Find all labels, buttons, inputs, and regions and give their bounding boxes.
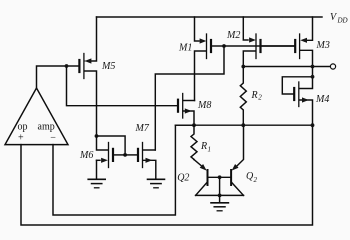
label M2 (226, 30, 240, 41)
transistor M4 (282, 67, 312, 126)
svg-text:M6: M6 (79, 150, 93, 161)
node junction M2 drain / R2 top (241, 65, 245, 69)
wire jog to M6/M7 gates (97, 136, 126, 155)
wire mid rail (175, 124, 312, 126)
node junction op-amp output (65, 64, 69, 68)
svg-text:−: − (50, 132, 56, 143)
node Vdd label (330, 12, 348, 25)
wire collector line (196, 194, 244, 196)
transistor M1 (195, 17, 225, 101)
label R2 (251, 90, 263, 102)
svg-text:M4: M4 (315, 94, 329, 105)
svg-text:M5: M5 (101, 61, 115, 72)
svg-text:M3: M3 (316, 40, 330, 51)
wire bases to emitter line (219, 177, 221, 195)
wire Q2/Q3 base line (209, 176, 231, 178)
label Q3 (246, 171, 258, 184)
svg-text:M1: M1 (178, 43, 192, 54)
label M4 (315, 94, 329, 105)
node junction R2 bottom (241, 123, 245, 127)
svg-text:M2: M2 (226, 30, 240, 41)
node junction M8 source / R1 (192, 123, 196, 127)
wire VDD rail (97, 16, 323, 18)
node output terminal (330, 64, 335, 69)
node junction output / M3 drain (311, 65, 315, 69)
transistor M8 (178, 94, 195, 126)
transistor M7 (125, 143, 156, 179)
svg-text:R: R (200, 141, 207, 152)
label M5 (101, 61, 115, 72)
svg-text:M8: M8 (197, 100, 211, 111)
svg-text:2: 2 (258, 94, 262, 102)
wire op-amp output to M8 gate (67, 66, 177, 106)
label M7 (135, 123, 150, 134)
node junction M4 gate loop (311, 75, 315, 79)
wire gate bus M1-M2-M3 (224, 45, 294, 47)
svg-text:M7: M7 (135, 123, 150, 134)
transistor M5 (67, 17, 97, 136)
svg-text:+: + (18, 132, 24, 143)
ground under M7 (148, 179, 165, 188)
label Q2 (177, 173, 189, 184)
label R1 (200, 141, 211, 154)
ground under M6 (88, 179, 105, 188)
svg-text:2: 2 (254, 176, 258, 184)
wire op-amp output to M5 gate (37, 66, 67, 88)
svg-text:R: R (251, 90, 258, 101)
svg-text:op: op (18, 121, 28, 132)
wire feedback noninverting input (21, 125, 313, 225)
transistor M2 (243, 17, 294, 67)
node junction M5 drain / M6 drain (95, 134, 99, 138)
node junction collector line (218, 194, 222, 198)
wire output line (243, 66, 330, 68)
svg-text:amp: amp (38, 121, 55, 132)
node junction M4 source / feedback (311, 123, 315, 127)
svg-text:1: 1 (208, 146, 212, 154)
transistor M6 (97, 136, 126, 179)
node junction M6/M7 gates (123, 153, 127, 157)
resistor R2 (240, 67, 246, 126)
label M8 (197, 100, 211, 111)
resistor R1 (191, 125, 197, 159)
svg-text:Q2: Q2 (177, 173, 189, 184)
transistor Q3 (231, 125, 243, 195)
node junction gate bus (222, 44, 226, 48)
svg-text:DD: DD (337, 17, 348, 25)
wire feedback inverting input (53, 125, 194, 215)
node junction bases (218, 175, 222, 179)
transistor Q2 (194, 160, 208, 196)
transistor M3 (295, 17, 312, 67)
label M3 (316, 40, 330, 51)
label M6 (79, 150, 93, 161)
op-amp U1 (5, 88, 68, 145)
wire gate bus to M7 drain (155, 46, 224, 150)
ground Q2/Q3 (211, 195, 228, 210)
label M1 (178, 43, 192, 54)
